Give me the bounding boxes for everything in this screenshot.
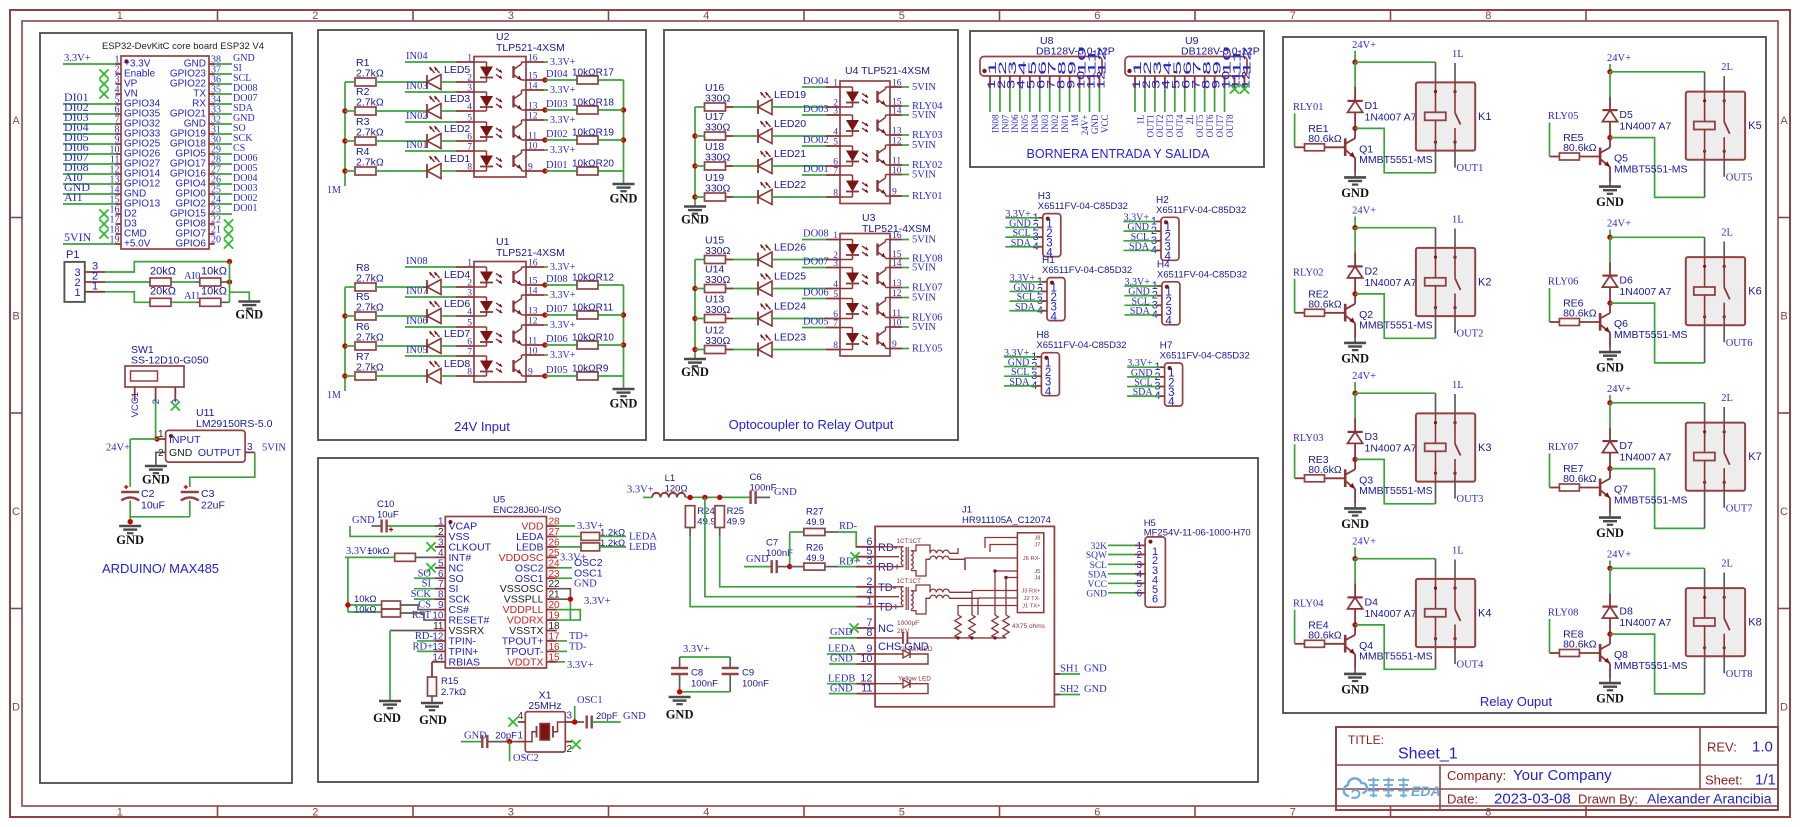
svg-text:DO07: DO07: [803, 257, 829, 268]
ground: [116, 526, 144, 547]
wire P1 pin1 row: [105, 292, 230, 303]
wire relay pins bottom: [1436, 647, 1456, 669]
junction: [787, 564, 792, 569]
net label 3.3V+ (INT#): [346, 546, 373, 557]
svg-text:DI06: DI06: [546, 334, 568, 345]
resistor 10k CS pullup: [354, 594, 401, 609]
svg-text:J2 TX-: J2 TX-: [1024, 596, 1041, 602]
svg-text:DO08: DO08: [803, 229, 829, 240]
svg-text:R25: R25: [727, 506, 744, 517]
net label 5VIN: [902, 140, 936, 151]
ground: [1341, 338, 1369, 365]
ground: [681, 207, 709, 227]
svg-text:10kΩR20: 10kΩR20: [572, 159, 614, 170]
ground: [1341, 504, 1369, 531]
wire: [345, 315, 427, 317]
svg-text:330Ω: 330Ω: [705, 93, 731, 105]
junction: [1352, 60, 1357, 65]
svg-text:12: 12: [892, 289, 902, 299]
net label DO06: [802, 288, 829, 299]
diode D6 1N4007: [1602, 237, 1671, 303]
ground: [681, 359, 709, 379]
svg-text:1N4007 A7: 1N4007 A7: [1619, 452, 1671, 464]
svg-text:MMBT5551-MS: MMBT5551-MS: [1359, 651, 1433, 663]
svg-text:MMBT5551-MS: MMBT5551-MS: [1614, 163, 1688, 175]
svg-text:OUT5: OUT5: [1195, 114, 1205, 137]
net label RLY07: [1548, 442, 1578, 488]
svg-text:4: 4: [517, 711, 523, 722]
svg-text:24V+: 24V+: [106, 443, 130, 454]
junction: [1352, 126, 1357, 131]
svg-text:DI02: DI02: [546, 129, 568, 140]
ground: [419, 703, 447, 727]
svg-text:SDA: SDA: [1009, 377, 1030, 388]
svg-text:DO04: DO04: [803, 76, 829, 87]
svg-text:R15: R15: [441, 676, 458, 687]
svg-text:J5: J5: [1034, 569, 1040, 575]
svg-text:ENC28J60-I/SO: ENC28J60-I/SO: [493, 505, 561, 516]
svg-text:22uF: 22uF: [201, 500, 225, 512]
LED LED19: [758, 89, 806, 115]
no-connect CLKOUT: [426, 542, 435, 551]
net label 3.3V+: [544, 320, 576, 331]
junction: [1607, 135, 1612, 140]
svg-text:5VIN: 5VIN: [912, 170, 936, 181]
svg-text:16: 16: [892, 231, 902, 241]
title block Date: [1447, 791, 1571, 808]
svg-text:RLY06: RLY06: [1548, 277, 1578, 288]
svg-text:RD-: RD-: [839, 521, 858, 532]
net label GND (J1.10): [829, 653, 856, 664]
net label GND (VCAP): [352, 515, 375, 526]
svg-text:NC: NC: [878, 623, 894, 635]
svg-text:K1: K1: [1478, 111, 1491, 123]
svg-text:3: 3: [866, 556, 872, 568]
svg-text:RLY08: RLY08: [1548, 608, 1578, 619]
svg-text:24V Input: 24V Input: [454, 419, 510, 434]
svg-text:GND: GND: [142, 473, 170, 487]
net label RD-: [839, 521, 858, 532]
svg-text:Your Company: Your Company: [1513, 767, 1612, 784]
svg-text:IN06: IN06: [406, 316, 428, 327]
net label GND (VSSOSC): [574, 579, 597, 590]
LED LED22: [758, 179, 806, 205]
LED LED1: [427, 153, 470, 179]
svg-text:GND: GND: [419, 713, 447, 727]
svg-text:SCL: SCL: [1090, 561, 1108, 571]
transistor Q2 MMBT5551: [1345, 294, 1432, 338]
LED LED2: [427, 123, 470, 149]
wire: [545, 139, 624, 141]
svg-text:RD+: RD+: [878, 562, 900, 574]
wire: [345, 375, 427, 377]
svg-text:OUT5: OUT5: [1726, 172, 1753, 183]
svg-text:K6: K6: [1748, 286, 1761, 298]
no-connect J1 pin7: [849, 623, 858, 632]
svg-text:SS-12D10-G050: SS-12D10-G050: [131, 355, 209, 367]
net label DI02: [546, 129, 568, 140]
optocoupler U2 TLP521-4XSM: [456, 31, 565, 177]
svg-text:5: 5: [467, 319, 472, 329]
svg-text:Green LED: Green LED: [900, 646, 933, 653]
net label 3.3V+ (C8/C9): [683, 644, 710, 655]
svg-text:C3: C3: [201, 488, 215, 500]
svg-text:3: 3: [438, 537, 444, 548]
wire to J1 pin4: [705, 497, 856, 596]
svg-text:LED26: LED26: [774, 242, 806, 254]
net label IN08: [405, 256, 456, 267]
junction: [1352, 225, 1357, 230]
svg-text:K8: K8: [1748, 617, 1761, 629]
ground: [610, 389, 638, 411]
wire: [545, 314, 624, 316]
svg-text:OUT3: OUT3: [1165, 114, 1175, 137]
svg-text:RLY01: RLY01: [1293, 102, 1323, 113]
wire 24V+ to relay coil: [1355, 228, 1435, 248]
termination resistors 4X75 ohms: [955, 615, 1046, 638]
net label DI03: [546, 99, 568, 110]
resistor R8 2.7k: [355, 262, 384, 291]
svg-text:GND: GND: [681, 213, 709, 227]
net label IN06: [405, 316, 456, 327]
diode D7 1N4007: [1602, 403, 1671, 469]
wire: [695, 165, 758, 167]
net label IN03: [405, 81, 456, 92]
net label DO02: [802, 135, 829, 146]
no-connect NC: [426, 563, 435, 572]
junction: [717, 495, 722, 500]
svg-text:3.3V+: 3.3V+: [584, 596, 611, 607]
svg-text:11: 11: [861, 683, 872, 695]
svg-text:LED8: LED8: [444, 358, 470, 370]
svg-text:OUT2: OUT2: [1155, 115, 1165, 138]
capacitor C10 10uF: [377, 499, 399, 533]
svg-text:24V+: 24V+: [1352, 40, 1376, 51]
svg-text:7: 7: [833, 167, 838, 177]
wire R25 to J1 TD-: [720, 528, 857, 587]
svg-text:R24: R24: [697, 506, 714, 517]
LED LED6: [427, 298, 470, 324]
svg-text:12: 12: [528, 317, 538, 327]
svg-text:K3: K3: [1478, 442, 1491, 454]
resistor 10k RST pullup: [354, 605, 401, 618]
net label 3.3V+ (VDDTX): [557, 660, 594, 671]
svg-text:IN02: IN02: [1050, 115, 1060, 134]
net label DI04: [546, 69, 568, 80]
svg-text:SQW: SQW: [1086, 551, 1107, 561]
svg-text:8: 8: [438, 590, 444, 601]
svg-text:MMBT5551-MS: MMBT5551-MS: [1614, 329, 1688, 341]
svg-text:6: 6: [1152, 593, 1158, 605]
wire C8/C9 bottom: [680, 674, 731, 692]
svg-text:80.6kΩ: 80.6kΩ: [1563, 308, 1597, 320]
svg-text:TD-: TD-: [569, 641, 587, 652]
resistor U18 330: [705, 141, 731, 170]
svg-text:3.3V+: 3.3V+: [64, 53, 91, 64]
net label 5VIN: [902, 82, 936, 93]
junction: [1352, 391, 1357, 396]
svg-text:9: 9: [892, 340, 897, 350]
LED LED23: [758, 332, 806, 358]
svg-text:GND: GND: [1596, 195, 1624, 209]
resistor R5 2.7k: [355, 291, 384, 320]
svg-text:14: 14: [892, 107, 902, 117]
resistor 1.2k LEDB: [581, 538, 625, 551]
net label 24V+: [106, 443, 130, 454]
net label 1M: [327, 390, 341, 401]
wire L1 to C6: [685, 496, 750, 498]
svg-text:10kΩR11: 10kΩR11: [572, 303, 614, 314]
junction: [702, 495, 707, 500]
svg-text:5: 5: [467, 114, 472, 124]
capacitor C2 10uF: [121, 485, 165, 512]
svg-text:1: 1: [467, 259, 472, 269]
svg-text:4: 4: [1165, 315, 1172, 327]
svg-text:GND: GND: [666, 708, 694, 722]
title block Sheet 1/1: [1705, 772, 1776, 789]
diode D8 1N4007: [1602, 568, 1671, 634]
svg-text:RLY01: RLY01: [912, 191, 942, 202]
svg-text:10kΩ: 10kΩ: [201, 266, 227, 278]
net label 2L: [1721, 228, 1733, 258]
svg-text:EDA: EDA: [1411, 783, 1441, 799]
svg-text:1N4007 A7: 1N4007 A7: [1365, 277, 1417, 289]
svg-text:OUT4: OUT4: [1457, 660, 1485, 671]
svg-text:6: 6: [1136, 588, 1142, 599]
resistor R19 10k: [572, 128, 614, 145]
wire RBIAS to R15: [432, 662, 435, 677]
svg-text:2: 2: [312, 10, 318, 22]
wire U11 output to C3: [190, 452, 255, 487]
svg-text:4: 4: [1051, 311, 1058, 323]
svg-text:X6511FV-04-C85D32: X6511FV-04-C85D32: [1156, 205, 1246, 216]
net label 5VIN: [902, 170, 936, 181]
svg-text:1: 1: [92, 280, 98, 292]
wire: [772, 318, 826, 320]
svg-text:1: 1: [467, 54, 472, 64]
IC U5 ENC28J60-I/SO: [432, 495, 561, 669]
junction: [1607, 466, 1612, 471]
net label OSC2: [513, 753, 539, 764]
svg-text:5VIN: 5VIN: [912, 110, 936, 121]
net label RLY01: [902, 191, 942, 202]
svg-text:IN07: IN07: [1000, 114, 1010, 133]
svg-text:GND: GND: [373, 711, 401, 725]
relay K2: [1416, 248, 1492, 316]
svg-text:3.3V+: 3.3V+: [550, 290, 576, 301]
net label AI0: [184, 271, 200, 282]
optocoupler U3 TLP521-4XSM: [826, 212, 931, 356]
svg-text:HR911105A_C12074: HR911105A_C12074: [962, 515, 1051, 526]
svg-text:1CT:1CT: 1CT:1CT: [897, 578, 922, 585]
svg-text:IN01: IN01: [1060, 115, 1070, 134]
wire LEDA: [557, 535, 626, 537]
svg-text:DO01: DO01: [233, 203, 257, 214]
net label TD- (TPOUT-): [557, 641, 587, 652]
net label CS: [401, 600, 436, 611]
resistor RE1 80.6k: [1295, 123, 1346, 151]
svg-text:7: 7: [833, 319, 838, 329]
svg-text:LED5: LED5: [444, 64, 470, 76]
svg-text:RLY04: RLY04: [1293, 598, 1324, 609]
ground: [610, 184, 638, 206]
resistor RE2 80.6k: [1295, 288, 1346, 316]
relay K7: [1686, 423, 1762, 491]
svg-text:X6511FV-04-C85D32: X6511FV-04-C85D32: [1042, 265, 1132, 276]
svg-text:DO03: DO03: [803, 104, 829, 115]
junction: [1607, 631, 1612, 636]
svg-text:C6: C6: [750, 472, 762, 483]
svg-text:DO06: DO06: [803, 288, 829, 299]
wire: [441, 170, 456, 172]
svg-text:10kΩR17: 10kΩR17: [572, 68, 614, 79]
svg-text:D6: D6: [1619, 275, 1633, 287]
wire collector to relay coil: [1610, 303, 1705, 363]
section title Relay Ouput: [1480, 694, 1553, 709]
net label DO03: [802, 104, 829, 115]
svg-text:RLY02: RLY02: [1293, 267, 1323, 278]
svg-text:3.3V+: 3.3V+: [550, 350, 576, 361]
svg-text:330Ω: 330Ω: [705, 245, 731, 257]
svg-text:DO05: DO05: [803, 317, 829, 328]
net label OUT2: [1457, 329, 1484, 340]
net label 24V+ (K8): [1607, 550, 1631, 569]
inductor L1 120: [652, 473, 687, 497]
svg-text:330Ω: 330Ω: [705, 152, 731, 164]
resistor R18 10k: [572, 98, 614, 115]
net label 5VIN: [902, 322, 936, 333]
net label 3.3V+: [544, 85, 576, 96]
svg-text:24V+: 24V+: [1607, 550, 1631, 561]
svg-text:TITLE:: TITLE:: [1348, 733, 1384, 747]
resistor R6 2.7k: [355, 321, 384, 350]
junction: [542, 137, 547, 142]
svg-text:80.6kΩ: 80.6kΩ: [1308, 629, 1342, 641]
wire relay pins bottom: [1705, 656, 1725, 694]
svg-text:P1: P1: [66, 249, 79, 261]
wire collector to relay coil: [1610, 469, 1705, 529]
wire: [545, 344, 624, 346]
svg-text:DO01: DO01: [803, 164, 829, 175]
svg-text:3: 3: [833, 259, 838, 269]
svg-text:Relay Ouput: Relay Ouput: [1480, 694, 1553, 709]
section box 24V Input: [318, 30, 646, 440]
svg-text:2.7kΩ: 2.7kΩ: [356, 273, 384, 285]
LED LED25: [758, 271, 806, 297]
svg-text:7: 7: [1290, 807, 1296, 819]
svg-text:1N4007 A7: 1N4007 A7: [1619, 286, 1671, 298]
svg-text:AI1: AI1: [64, 190, 83, 204]
ground: [1596, 182, 1624, 209]
svg-text:B: B: [1780, 310, 1787, 322]
svg-text:SDA: SDA: [1130, 306, 1151, 317]
svg-text:GPIO6: GPIO6: [175, 239, 206, 250]
svg-text:3: 3: [467, 289, 472, 299]
junction: [542, 77, 547, 82]
svg-text:C: C: [12, 506, 20, 518]
net label 24V+ (K4): [1352, 537, 1376, 559]
net label GND (J1.8): [829, 627, 856, 638]
svg-text:U5: U5: [493, 495, 505, 506]
svg-text:1N4007 A7: 1N4007 A7: [1619, 617, 1671, 629]
wire: [345, 140, 427, 142]
svg-text:80.6kΩ: 80.6kΩ: [1308, 133, 1342, 145]
svg-text:1: 1: [833, 79, 838, 89]
no-connect J1 pin5: [850, 552, 859, 561]
net label LEDB (J1.12): [827, 673, 856, 684]
net label 1L: [1452, 546, 1464, 579]
svg-text:1N4007 A7: 1N4007 A7: [1365, 111, 1417, 123]
svg-text:2: 2: [151, 399, 162, 404]
svg-text:REV:: REV:: [1707, 740, 1737, 755]
wire: [695, 259, 758, 261]
svg-text:18: 18: [549, 621, 561, 632]
svg-text:1M: 1M: [1070, 115, 1080, 128]
wire: [345, 81, 427, 83]
net label RLY08: [1548, 608, 1578, 654]
net label IN02: [405, 111, 456, 122]
svg-text:GND: GND: [774, 487, 797, 498]
resistor R9 10k: [572, 364, 609, 381]
net label RD+ (TPIN+): [412, 641, 435, 652]
svg-text:100nF: 100nF: [750, 483, 777, 494]
svg-text:10uF: 10uF: [141, 500, 165, 512]
net label 5VIN: [902, 235, 936, 246]
net label DO05: [802, 317, 829, 328]
wire: [772, 349, 826, 351]
svg-text:8: 8: [1485, 10, 1491, 22]
svg-text:1L: 1L: [1452, 215, 1464, 226]
net label SH2: [1054, 684, 1107, 695]
svg-text:OUT7: OUT7: [1215, 114, 1225, 137]
svg-text:3.3V+: 3.3V+: [550, 85, 576, 96]
net label OUT1: [1457, 163, 1484, 174]
svg-text:Sheet:: Sheet:: [1705, 773, 1743, 788]
svg-text:11: 11: [892, 157, 901, 167]
svg-text:100nF: 100nF: [742, 679, 769, 690]
wire: [345, 286, 427, 288]
svg-text:LED2: LED2: [444, 123, 470, 135]
junction: [227, 279, 232, 284]
svg-text:X6511FV-04-C85D32: X6511FV-04-C85D32: [1160, 351, 1250, 362]
svg-text:1: 1: [117, 807, 123, 819]
svg-text:J1 TX+: J1 TX+: [1022, 604, 1041, 610]
wire OSC2: [557, 567, 572, 569]
wire: [545, 170, 624, 172]
svg-text:OSC2: OSC2: [513, 753, 539, 764]
svg-text:J8: J8: [1034, 536, 1040, 542]
ground: [142, 466, 170, 487]
svg-text:5: 5: [438, 558, 444, 569]
svg-text:OUT2: OUT2: [1457, 329, 1484, 340]
LED LED20: [758, 118, 806, 144]
svg-text:IN02: IN02: [406, 111, 428, 122]
net label DO04: [802, 76, 829, 87]
net label 1L: [1452, 380, 1464, 413]
svg-text:10kΩR19: 10kΩR19: [572, 128, 614, 139]
svg-text:3.3V+: 3.3V+: [683, 644, 710, 655]
capacitor 1000pF 2KV: [875, 620, 1006, 644]
wire GND loop to VSS: [350, 526, 435, 536]
wire 24V+ to relay coil: [1355, 393, 1435, 413]
net label RLY04: [902, 101, 943, 112]
svg-text:24V+: 24V+: [1352, 206, 1376, 217]
net label 5VIN: [262, 443, 286, 454]
svg-text:IN08: IN08: [990, 114, 1000, 133]
resistor R10 10k: [572, 333, 614, 350]
svg-text:1: 1: [158, 429, 164, 440]
svg-text:1L: 1L: [1452, 380, 1464, 391]
